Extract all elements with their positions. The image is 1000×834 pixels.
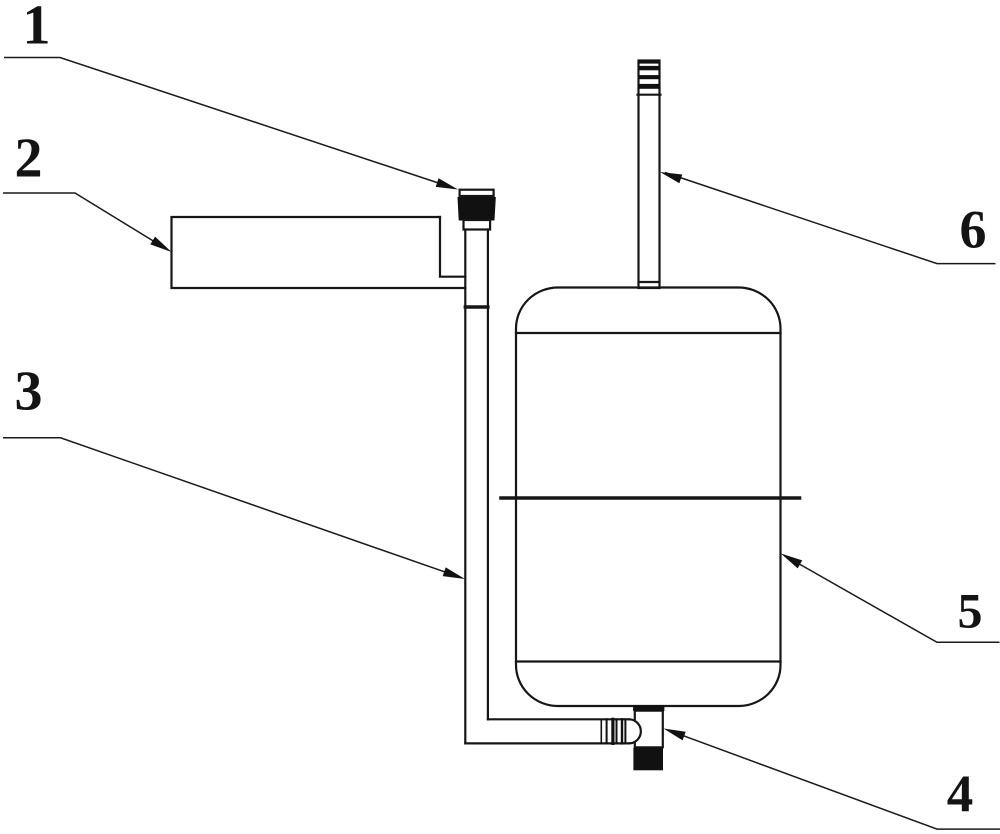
top fill valve (component 1) rim <box>460 190 494 196</box>
leader line 5 <box>785 556 1000 642</box>
svg-text:6: 6 <box>960 200 987 260</box>
pipe end bell seat <box>629 719 641 743</box>
leader line 6 <box>665 173 996 264</box>
valve 1 lower collar <box>464 220 491 230</box>
top vent pipe (component 6) <box>639 61 660 289</box>
bottom horizontal pipe run <box>465 742 629 744</box>
threaded pipe end ribs <box>601 719 625 743</box>
svg-text:3: 3 <box>15 361 43 423</box>
arrowhead 6 <box>660 172 682 183</box>
svg-text:4: 4 <box>947 766 974 824</box>
tank top weld seam line <box>516 332 781 334</box>
hopper outlet step to pipe <box>440 217 465 277</box>
leader line 2 <box>3 193 168 250</box>
arrowhead 5 <box>781 554 802 569</box>
leader line 1 <box>4 58 452 188</box>
pipe 3 joint band <box>465 305 488 308</box>
tank mid liquid level line (thick) <box>501 496 800 500</box>
arrowhead 1 <box>436 178 458 189</box>
pipe 6 collar line near tank <box>639 281 660 283</box>
valve 1 black knob <box>458 198 495 221</box>
tank bottom weld seam line <box>516 660 781 662</box>
svg-text:1: 1 <box>23 0 51 57</box>
leader line 4 <box>668 730 1000 829</box>
valve 4 bottom black cap <box>633 748 663 771</box>
pipe 6 ribbed cap bands <box>638 60 661 89</box>
arrowheads <box>150 172 802 740</box>
drain valve (component 4) body <box>635 711 663 748</box>
arrowhead 2 <box>150 237 171 252</box>
leader line 3 <box>3 438 461 578</box>
svg-text:2: 2 <box>15 128 43 190</box>
tank vessel body (component 5) <box>516 288 781 707</box>
valve 4 top black flange <box>633 705 664 711</box>
vertical down pipe (component 3) <box>464 230 466 744</box>
arrowhead 4 <box>664 729 686 741</box>
feed hopper rectangle (component 2) <box>172 217 466 288</box>
pipe 6 shoulder line under ribs <box>638 94 661 96</box>
svg-text:5: 5 <box>958 583 983 639</box>
arrowhead 3 <box>443 567 465 579</box>
